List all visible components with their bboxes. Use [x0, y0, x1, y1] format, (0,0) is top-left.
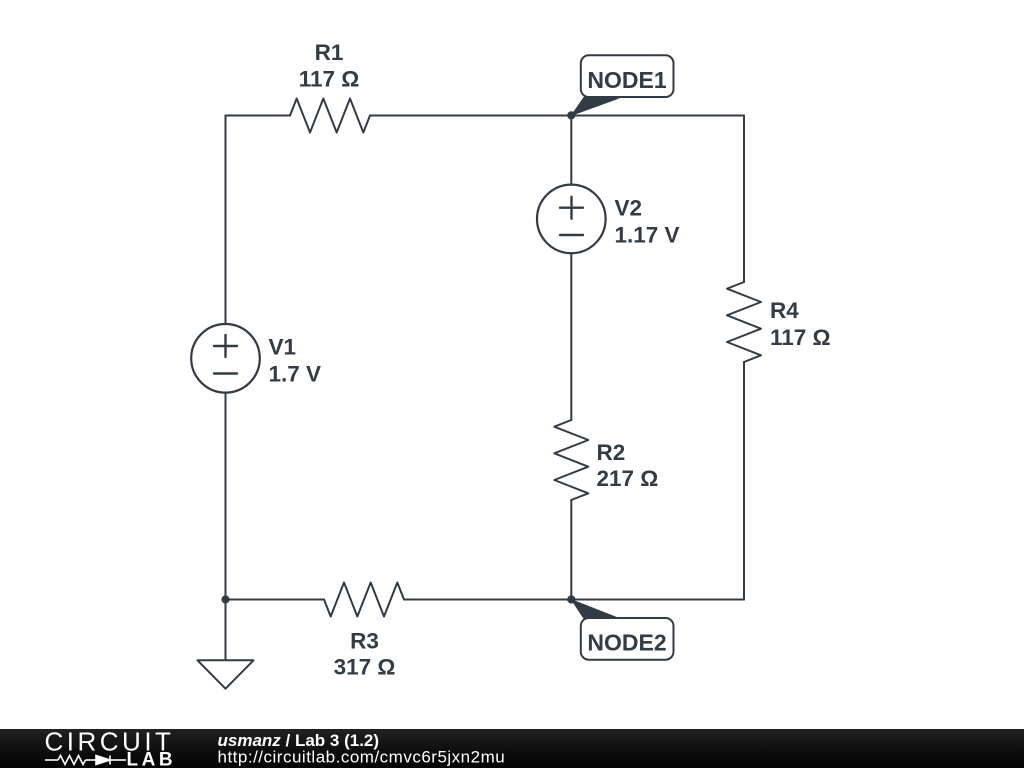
svg-text:NODE2: NODE2: [587, 630, 666, 656]
resistor R4: [727, 282, 761, 362]
svg-text:http://circuitlab.com/cmvc6r5j: http://circuitlab.com/cmvc6r5jxn2mu: [218, 748, 506, 767]
svg-text:R3: R3: [350, 629, 379, 654]
wire ground stem: [225, 600, 227, 661]
node NODE2 flag tail: [570, 599, 620, 620]
svg-text:117 Ω: 117 Ω: [770, 325, 831, 350]
voltage source V1: [191, 324, 260, 393]
wire middle rail to bottom: [570, 500, 572, 600]
wire right rail lower: [743, 362, 745, 600]
wire middle rail below V2: [570, 253, 572, 420]
svg-text:R2: R2: [597, 440, 626, 465]
wire top-left horizontal segment: [226, 115, 291, 117]
svg-text:NODE1: NODE1: [587, 67, 666, 93]
voltage source V2: [537, 185, 606, 254]
node B junction dot NODE2: [567, 595, 575, 603]
svg-text:V2: V2: [615, 196, 643, 221]
node A junction dot NODE1: [567, 111, 575, 119]
wire top horizontal to right: [370, 115, 744, 117]
node NODE1 flag box: [581, 55, 674, 97]
svg-text:V1: V1: [269, 335, 297, 360]
svg-text:1.7 V: 1.7 V: [269, 362, 322, 387]
svg-text:R1: R1: [315, 40, 344, 65]
resistor R3: [324, 583, 404, 617]
svg-text:R4: R4: [770, 298, 799, 323]
node C junction dot ground: [221, 595, 229, 603]
logo circuit glyph: [45, 756, 126, 765]
resistor R1: [290, 99, 370, 133]
ground: [198, 660, 254, 688]
svg-text:317 Ω: 317 Ω: [334, 655, 396, 680]
wire bottom-left horizontal: [226, 599, 325, 601]
wire left rail lower: [225, 393, 227, 600]
wire middle rail from node1: [570, 116, 572, 185]
svg-text:LAB: LAB: [127, 750, 177, 768]
wire right rail upper: [743, 116, 745, 283]
wire bottom horizontal to right: [404, 599, 744, 601]
node NODE1 flag tail: [570, 97, 620, 117]
svg-text:217 Ω: 217 Ω: [597, 466, 659, 491]
footer bar: [0, 729, 1024, 768]
svg-text:1.17 V: 1.17 V: [615, 223, 680, 248]
wire left rail upper: [225, 116, 227, 325]
svg-text:117 Ω: 117 Ω: [299, 67, 360, 92]
node NODE2 flag box: [581, 618, 674, 660]
resistor R2: [554, 420, 588, 500]
